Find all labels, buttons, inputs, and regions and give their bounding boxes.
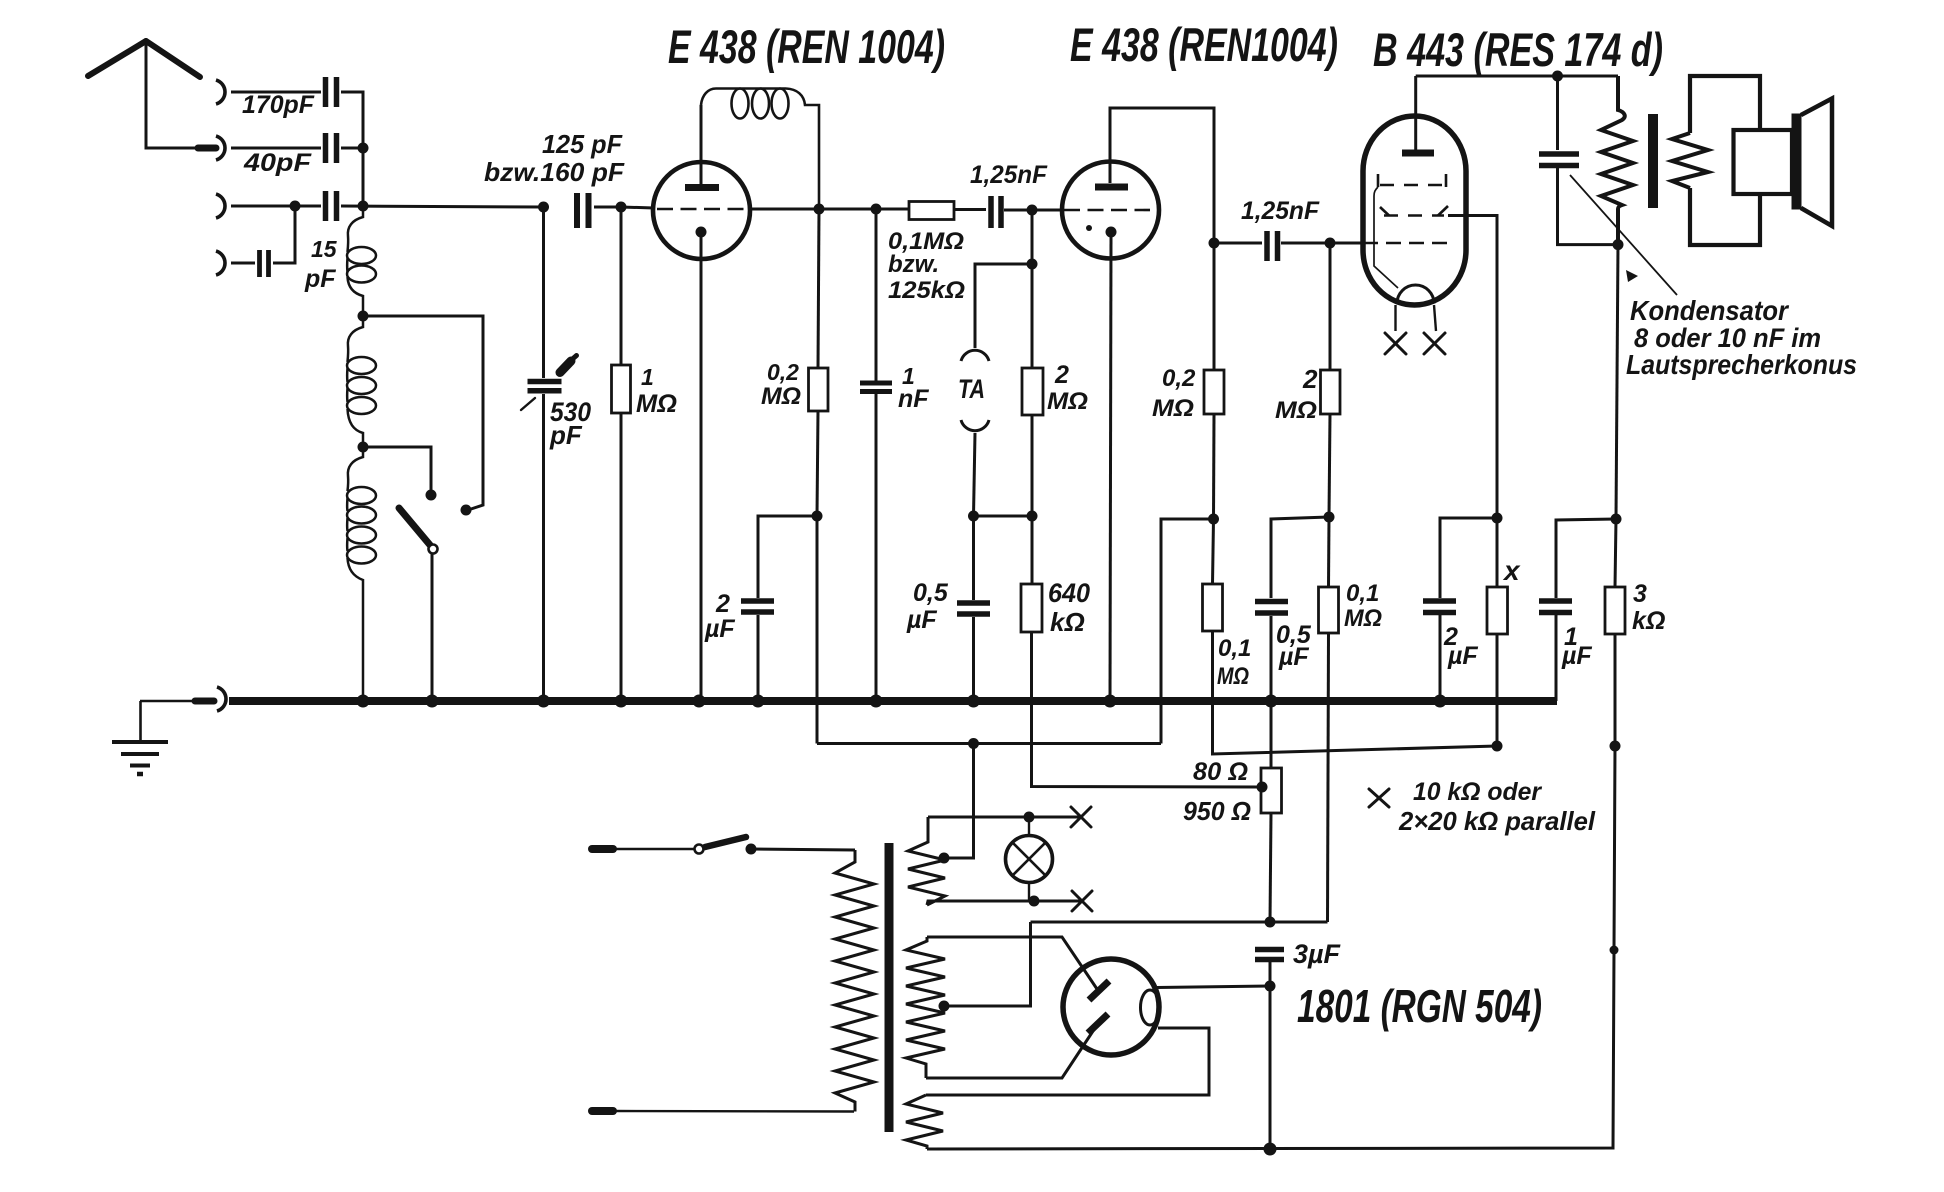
resistor 640k bbox=[1031, 516, 1034, 584]
svg-text:2: 2 bbox=[1302, 364, 1318, 394]
svg-text:0,2: 0,2 bbox=[767, 359, 799, 385]
wire grid to tube V1 bbox=[621, 207, 654, 208]
svg-text:µF: µF bbox=[906, 606, 937, 634]
bus node switch bbox=[426, 695, 439, 708]
triode V2 E438 bbox=[1062, 162, 1159, 259]
grid V2 (dashed) bbox=[1064, 209, 1150, 212]
svg-text:950 Ω: 950 Ω bbox=[1183, 796, 1251, 826]
svg-text:40pF: 40pF bbox=[243, 149, 312, 177]
vertical antenna line bbox=[362, 148, 365, 206]
input jack 4 bbox=[216, 251, 225, 275]
svg-text:pF: pF bbox=[549, 420, 583, 450]
HT secondary winding bbox=[906, 937, 945, 1078]
svg-text:125 pF: 125 pF bbox=[542, 129, 623, 159]
svg-text:10 kΩ oder: 10 kΩ oder bbox=[1413, 778, 1542, 806]
svg-text:640: 640 bbox=[1048, 578, 1090, 608]
heater mark x3 bbox=[1071, 807, 1091, 827]
node tap2 bbox=[358, 442, 369, 453]
svg-text:170pF: 170pF bbox=[242, 91, 315, 119]
pilot lamp bbox=[1006, 836, 1053, 883]
capacitor 40pF bbox=[326, 133, 337, 163]
wire jack1 to C170 bbox=[231, 91, 321, 94]
HT top lead to anode bbox=[927, 937, 1097, 989]
HT bottom lead to anode bbox=[926, 1027, 1096, 1079]
speaker loop wires bbox=[1690, 76, 1760, 133]
anode coil L4 bbox=[701, 89, 819, 210]
bus node 80-950 ohm bbox=[1265, 695, 1278, 708]
svg-text:E 438 (REN1004): E 438 (REN1004) bbox=[1070, 18, 1338, 71]
capacitor 0.5uF (stage1) bbox=[972, 516, 975, 600]
capacitor 2uF (stage1) bbox=[741, 601, 774, 612]
node 640k top bbox=[1027, 511, 1038, 522]
wire C15 up to input line bbox=[273, 206, 295, 263]
bus node 2uF output bbox=[1434, 695, 1447, 708]
rectifier dome arc bbox=[1141, 990, 1160, 1025]
antenna bbox=[88, 41, 216, 148]
heater bottom lead bbox=[927, 901, 1082, 905]
wire main input line bbox=[341, 206, 543, 207]
wire C170 to bus A bbox=[341, 92, 363, 148]
svg-text:2: 2 bbox=[1054, 361, 1069, 389]
screen grid dashes V3 bbox=[1374, 174, 1448, 288]
svg-text:MΩ: MΩ bbox=[1344, 605, 1382, 632]
svg-text:MΩ: MΩ bbox=[761, 383, 801, 410]
resistor 1M bbox=[616, 202, 627, 213]
svg-text:0,5: 0,5 bbox=[913, 579, 949, 607]
heater mark x2 bbox=[1424, 333, 1445, 354]
node tap1 bbox=[358, 311, 369, 322]
svg-text:µF: µF bbox=[1278, 643, 1309, 671]
cathode V1 bbox=[696, 227, 707, 238]
bus node V1 cathode bbox=[693, 695, 706, 708]
capacitor 15pF bbox=[260, 250, 269, 277]
resistor 2M (stage1 grid leak) bbox=[1022, 368, 1043, 415]
resistor 0.2M (stage 2) bbox=[1213, 243, 1216, 370]
svg-text:nF: nF bbox=[898, 385, 929, 413]
callout leader line bbox=[1570, 175, 1677, 295]
resistor 0.1M (HT line) bbox=[1327, 517, 1331, 587]
wire jack2 to C40 bbox=[231, 147, 321, 150]
anode V3 bbox=[1402, 150, 1434, 157]
bus node V2 cathode bbox=[1104, 695, 1117, 708]
capacitor 2uF (output) bbox=[1423, 601, 1456, 613]
wire V1 plate line bbox=[751, 208, 909, 211]
resistor X (10k) bbox=[1492, 513, 1503, 524]
svg-text:x: x bbox=[1502, 555, 1521, 586]
svg-text:MΩ: MΩ bbox=[1275, 397, 1317, 424]
node primary bottom bbox=[1613, 239, 1624, 250]
node V3 grid bbox=[1325, 238, 1336, 249]
node anode V1 bbox=[814, 204, 825, 215]
wire switch to bus bbox=[431, 554, 434, 701]
svg-text:80 Ω: 80 Ω bbox=[1193, 758, 1248, 786]
resistor 0.1M bzw 125k (horizontal) bbox=[909, 202, 954, 220]
svg-text:B 443 (RES 174 d): B 443 (RES 174 d) bbox=[1373, 23, 1663, 76]
mains switch bbox=[695, 845, 704, 854]
wire tap2 to switch contact a bbox=[363, 447, 431, 495]
control grid V3 (dashed) bbox=[1363, 242, 1450, 245]
svg-text:1,25nF: 1,25nF bbox=[1241, 197, 1320, 225]
rectifier winding (bottom) bbox=[906, 1095, 943, 1149]
svg-text:0,2: 0,2 bbox=[1162, 365, 1196, 392]
capacitor 0.5uF (stage2) bbox=[1255, 602, 1288, 614]
ground terminal jack bbox=[217, 687, 226, 711]
rectifier output lead bbox=[1157, 986, 1270, 988]
output tetrode V3 B443 bbox=[1363, 116, 1466, 305]
grid bias network wires y=519 bbox=[1161, 519, 1214, 744]
svg-text:1: 1 bbox=[641, 364, 654, 390]
bus node 1nF bbox=[870, 695, 883, 708]
resistor 3k bbox=[1615, 519, 1616, 587]
svg-text:3µF: 3µF bbox=[1293, 939, 1341, 969]
node V2 grid bbox=[1027, 205, 1038, 216]
switch contact b bbox=[461, 505, 472, 516]
svg-text:µF: µF bbox=[1447, 642, 1478, 670]
screen feed wire V3 bbox=[1448, 216, 1497, 519]
anode V1 bbox=[685, 184, 719, 191]
wire to TA pickup bbox=[975, 264, 1032, 348]
heater winding (top) bbox=[908, 817, 945, 905]
input jack 1 bbox=[216, 80, 225, 104]
wire jack4 to C15 bbox=[231, 262, 255, 265]
bias sub-bus wire bbox=[817, 742, 1161, 745]
mains transformer core bbox=[885, 843, 894, 1132]
svg-text:kΩ: kΩ bbox=[1632, 607, 1665, 635]
svg-text:pF: pF bbox=[304, 265, 336, 293]
speaker cone bar bbox=[1792, 114, 1802, 210]
svg-text:Kondensator: Kondensator bbox=[1630, 295, 1790, 326]
anode plate 2 bbox=[1088, 1014, 1108, 1033]
svg-text:MΩ: MΩ bbox=[636, 390, 677, 418]
capacitor 1uF bbox=[1556, 519, 1616, 598]
svg-text:E 438 (REN 1004): E 438 (REN 1004) bbox=[668, 20, 945, 73]
capacitor 3uF bbox=[1255, 950, 1284, 960]
capacitor 170pF bbox=[326, 77, 337, 107]
rectifier filament return bbox=[926, 1028, 1209, 1095]
coil L1 (2 loops) bbox=[347, 207, 376, 316]
node A bbox=[358, 143, 369, 154]
resistor 80/950 ohm bbox=[1270, 701, 1273, 768]
bus node 530pF bbox=[537, 695, 550, 708]
input jack 2 bbox=[216, 136, 225, 160]
bus node 1M bbox=[615, 695, 628, 708]
bus node 0.5uF bbox=[967, 695, 980, 708]
svg-text:2: 2 bbox=[715, 590, 730, 618]
triode V1 E438 bbox=[653, 162, 750, 259]
rectifier tube V4 1801 bbox=[1063, 959, 1159, 1055]
svg-text:MΩ: MΩ bbox=[1152, 395, 1194, 422]
cathode V2 bbox=[1106, 227, 1117, 238]
svg-text:TA: TA bbox=[958, 374, 985, 404]
HT centre tap bbox=[939, 1001, 950, 1012]
svg-text:3: 3 bbox=[1633, 580, 1647, 608]
node 1nF tap bbox=[871, 204, 882, 215]
grid V1 (dashed) bbox=[657, 208, 748, 211]
heater winding centre tap bbox=[939, 853, 950, 864]
resistor 0.1M (under V2) bbox=[1213, 519, 1214, 584]
mains transformer primary (zigzag) bbox=[835, 850, 874, 1112]
node 15pF tap bbox=[290, 201, 301, 212]
svg-text:15: 15 bbox=[311, 236, 338, 262]
svg-text:MΩ: MΩ bbox=[1047, 388, 1088, 415]
ground bus bbox=[229, 697, 1557, 705]
svg-text:2×20 kΩ parallel: 2×20 kΩ parallel bbox=[1398, 806, 1596, 836]
svg-text:µF: µF bbox=[1561, 642, 1592, 670]
capacitor 1.25nF (stage2) bbox=[1214, 242, 1262, 245]
output transformer core bbox=[1648, 114, 1658, 208]
wire tap1 to switch contact b bbox=[363, 316, 483, 510]
wire to 2uF bbox=[758, 516, 817, 598]
mains input bottom terminal bbox=[592, 1107, 613, 1115]
resistor 0.2M (stage 1) bbox=[818, 209, 819, 368]
long HT drop from primary bbox=[1616, 245, 1618, 519]
resistor 2M (stage2) bbox=[1329, 243, 1332, 370]
wire jack3 to C15 node bbox=[231, 205, 321, 208]
node TA bottom bbox=[968, 511, 979, 522]
output transformer secondary (zigzag) bbox=[1672, 133, 1708, 188]
ground symbol bbox=[112, 742, 168, 774]
variable capacitor 530pF bbox=[538, 202, 549, 213]
switch contact a bbox=[426, 490, 437, 501]
wave band switch blade bbox=[399, 508, 430, 545]
node 0.2M bottom bbox=[812, 511, 823, 522]
svg-text:bzw.160 pF: bzw.160 pF bbox=[484, 157, 625, 187]
filament dome V3 bbox=[1397, 285, 1434, 304]
speaker horn bbox=[1801, 99, 1832, 227]
HT node at rectifier output bbox=[1031, 921, 1328, 924]
filament legs V3 bbox=[1394, 305, 1396, 331]
svg-text:125kΩ: 125kΩ bbox=[888, 277, 965, 304]
bus node coil bbox=[357, 695, 370, 708]
svg-text:kΩ: kΩ bbox=[1050, 607, 1085, 637]
footnote x 10k oder 2x20k parallel bbox=[1369, 789, 1389, 807]
heater mark x1 bbox=[1385, 333, 1406, 354]
wire C40 to node A bbox=[341, 147, 363, 150]
svg-text:0,1: 0,1 bbox=[1218, 635, 1251, 662]
capacitor 8-10nF bbox=[1556, 76, 1559, 150]
input jack 3 bbox=[216, 194, 225, 218]
heater mark x4 bbox=[1072, 891, 1092, 911]
heater top lead bbox=[928, 816, 1081, 819]
node V2 anode junction bbox=[1209, 238, 1220, 249]
coil L2 (3 loops) bbox=[347, 317, 376, 447]
svg-text:0,1: 0,1 bbox=[1346, 580, 1379, 607]
svg-text:bzw.: bzw. bbox=[888, 251, 939, 278]
coil L3 (4 loops) bbox=[347, 447, 376, 701]
bus node 2uF bbox=[752, 695, 765, 708]
HT right edge drop bbox=[927, 746, 1615, 1149]
node grid bus bbox=[358, 201, 369, 212]
output transformer primary (zigzag) bbox=[1601, 76, 1633, 245]
svg-text:MΩ: MΩ bbox=[1217, 663, 1249, 690]
anode V2 bbox=[1095, 184, 1128, 191]
svg-text:1801 (RGN 504): 1801 (RGN 504) bbox=[1297, 980, 1542, 1032]
svg-text:Lautsprecherkonus: Lautsprecherkonus bbox=[1626, 349, 1857, 380]
capacitor series input bbox=[326, 191, 337, 221]
capacitor 1.25nF (stage1) bbox=[991, 196, 1001, 228]
mains input top terminal bbox=[592, 845, 613, 853]
arrow of 530pF bbox=[560, 361, 571, 373]
svg-text:1,25nF: 1,25nF bbox=[970, 161, 1048, 189]
node TA junction bbox=[1031, 210, 1034, 368]
capacitor 1nF bbox=[875, 209, 878, 381]
anode supply rail bbox=[1416, 75, 1618, 78]
anode plate 1 bbox=[1089, 981, 1109, 1000]
wire bias line left drop bbox=[816, 516, 819, 744]
speaker driver box bbox=[1734, 130, 1793, 194]
coupling capacitor 125pF bzw 160pF bbox=[577, 193, 589, 228]
svg-text:µF: µF bbox=[704, 615, 735, 643]
pickup TA bbox=[961, 350, 989, 361]
